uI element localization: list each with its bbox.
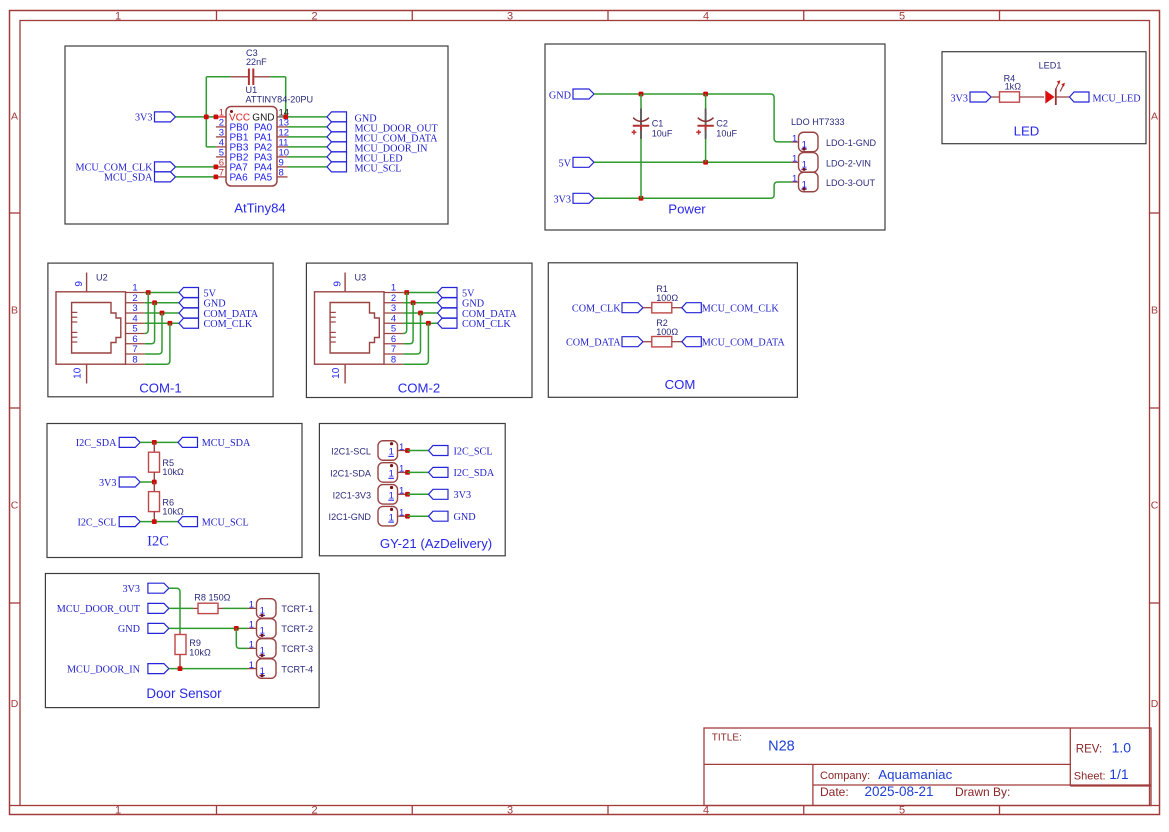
- svg-text:MCU_SDA: MCU_SDA: [104, 173, 153, 184]
- svg-text:TCRT-2: TCRT-2: [281, 624, 313, 634]
- svg-text:COM_DATA: COM_DATA: [566, 338, 621, 349]
- svg-text:1: 1: [792, 133, 797, 144]
- svg-text:3V3: 3V3: [99, 478, 117, 489]
- svg-text:TCRT-1: TCRT-1: [281, 604, 313, 614]
- svg-text:C: C: [11, 500, 19, 512]
- svg-text:ATTINY84-20PU: ATTINY84-20PU: [246, 95, 314, 105]
- svg-text:LDO-1-GND: LDO-1-GND: [826, 138, 876, 148]
- svg-text:2025-08-21: 2025-08-21: [865, 784, 934, 799]
- svg-text:MCU_COM_DATA: MCU_COM_DATA: [702, 338, 786, 349]
- svg-text:COM-1: COM-1: [139, 381, 182, 396]
- svg-text:1: 1: [399, 442, 404, 453]
- svg-text:1: 1: [399, 464, 404, 475]
- svg-text:COM_CLK: COM_CLK: [204, 319, 253, 330]
- svg-text:TCRT-4: TCRT-4: [281, 664, 313, 674]
- svg-text:2: 2: [311, 11, 317, 23]
- svg-text:MCU_COM_CLK: MCU_COM_CLK: [702, 304, 780, 315]
- svg-text:1: 1: [249, 620, 254, 631]
- svg-text:1: 1: [792, 173, 797, 184]
- svg-text:100Ω: 100Ω: [656, 293, 678, 303]
- svg-text:TCRT-3: TCRT-3: [281, 644, 313, 654]
- svg-text:GND: GND: [118, 624, 140, 635]
- svg-text:10kΩ: 10kΩ: [162, 467, 184, 477]
- svg-text:Sheet:: Sheet:: [1074, 770, 1106, 782]
- svg-text:B: B: [1151, 305, 1158, 317]
- svg-text:Aquamaniac: Aquamaniac: [878, 767, 952, 782]
- svg-text:1: 1: [399, 486, 404, 497]
- svg-text:8: 8: [279, 167, 284, 178]
- svg-text:8: 8: [132, 354, 137, 365]
- svg-text:10: 10: [73, 367, 84, 379]
- svg-text:GND: GND: [454, 512, 476, 523]
- svg-text:COM-2: COM-2: [398, 381, 441, 396]
- svg-text:N28: N28: [768, 739, 795, 755]
- svg-text:PA5: PA5: [254, 172, 273, 183]
- svg-text:9: 9: [333, 281, 344, 287]
- svg-text:1: 1: [115, 804, 121, 816]
- svg-text:MCU_DOOR_IN: MCU_DOOR_IN: [67, 664, 141, 675]
- svg-text:GY-21 (AzDelivery): GY-21 (AzDelivery): [380, 536, 492, 551]
- svg-text:C1: C1: [652, 118, 664, 128]
- svg-text:LDO-3-OUT: LDO-3-OUT: [826, 178, 875, 188]
- svg-text:3: 3: [507, 11, 513, 23]
- svg-text:I2C_SDA: I2C_SDA: [454, 468, 495, 479]
- svg-text:I2C1-SCL: I2C1-SCL: [331, 447, 371, 457]
- svg-text:B: B: [11, 305, 18, 317]
- svg-text:MCU_SCL: MCU_SCL: [202, 517, 249, 528]
- svg-text:I2C: I2C: [147, 534, 169, 550]
- svg-text:Door Sensor: Door Sensor: [146, 686, 222, 701]
- svg-text:LDO-2-VIN: LDO-2-VIN: [826, 158, 871, 168]
- svg-text:3V3: 3V3: [553, 195, 571, 206]
- svg-text:MCU_LED: MCU_LED: [1093, 94, 1141, 105]
- svg-text:GND: GND: [549, 90, 571, 101]
- svg-text:100Ω: 100Ω: [656, 327, 678, 337]
- svg-text:10uF: 10uF: [716, 129, 737, 139]
- svg-text:U3: U3: [355, 272, 367, 282]
- svg-text:10kΩ: 10kΩ: [189, 648, 211, 658]
- svg-text:I2C_SCL: I2C_SCL: [454, 446, 493, 457]
- svg-text:8: 8: [391, 354, 396, 365]
- svg-text:MCU_SDA: MCU_SDA: [202, 438, 251, 449]
- svg-text:3V3: 3V3: [454, 490, 472, 501]
- svg-text:9: 9: [74, 281, 85, 287]
- svg-text:4: 4: [703, 11, 709, 23]
- svg-text:1: 1: [249, 660, 254, 671]
- svg-text:22nF: 22nF: [246, 57, 267, 67]
- svg-text:3V3: 3V3: [122, 584, 140, 595]
- svg-text:R9: R9: [189, 638, 201, 648]
- svg-text:1: 1: [249, 640, 254, 651]
- svg-text:U2: U2: [96, 272, 108, 282]
- svg-text:C2: C2: [716, 118, 728, 128]
- svg-text:I2C1-GND: I2C1-GND: [329, 512, 372, 522]
- svg-text:I2C_SCL: I2C_SCL: [77, 517, 116, 528]
- svg-text:REV:: REV:: [1076, 744, 1102, 756]
- svg-text:COM: COM: [665, 377, 696, 392]
- svg-text:3V3: 3V3: [950, 94, 968, 105]
- svg-text:5V: 5V: [559, 159, 572, 170]
- svg-text:1: 1: [792, 154, 797, 165]
- svg-text:TITLE:: TITLE:: [712, 733, 742, 744]
- svg-text:1: 1: [115, 11, 121, 23]
- svg-text:AtTiny84: AtTiny84: [234, 201, 286, 216]
- svg-text:A: A: [1151, 111, 1158, 123]
- svg-text:5: 5: [899, 11, 905, 23]
- svg-text:1: 1: [399, 508, 404, 519]
- svg-text:LED: LED: [1014, 124, 1040, 139]
- svg-text:I2C1-SDA: I2C1-SDA: [330, 468, 372, 478]
- svg-text:3V3: 3V3: [135, 113, 153, 124]
- svg-text:LDO HT7333: LDO HT7333: [791, 117, 845, 127]
- svg-text:LED1: LED1: [1039, 61, 1062, 71]
- svg-text:10uF: 10uF: [652, 129, 673, 139]
- svg-text:MCU_SCL: MCU_SCL: [355, 163, 402, 174]
- svg-text:U1: U1: [246, 85, 258, 95]
- svg-text:Power: Power: [668, 202, 706, 217]
- svg-text:D: D: [11, 698, 19, 710]
- svg-text:7: 7: [219, 167, 224, 178]
- svg-text:10: 10: [331, 367, 342, 379]
- svg-text:1.0: 1.0: [1112, 740, 1132, 756]
- svg-text:Drawn By:: Drawn By:: [955, 785, 1010, 799]
- svg-text:3: 3: [507, 804, 513, 816]
- svg-text:COM_CLK: COM_CLK: [572, 304, 621, 315]
- svg-text:I2C_SDA: I2C_SDA: [76, 438, 117, 449]
- svg-text:C: C: [1151, 500, 1159, 512]
- svg-text:I2C1-3V3: I2C1-3V3: [333, 490, 371, 500]
- svg-text:Company:: Company:: [820, 770, 870, 782]
- svg-text:A: A: [11, 111, 18, 123]
- svg-text:R8 150Ω: R8 150Ω: [194, 593, 230, 603]
- svg-text:D: D: [1151, 698, 1159, 710]
- svg-text:PA6: PA6: [230, 172, 249, 183]
- svg-text:1kΩ: 1kΩ: [1005, 82, 1022, 92]
- svg-text:Date:: Date:: [820, 785, 849, 799]
- svg-text:MCU_DOOR_OUT: MCU_DOOR_OUT: [57, 604, 141, 615]
- svg-text:10kΩ: 10kΩ: [162, 506, 184, 516]
- svg-text:1: 1: [249, 600, 254, 611]
- svg-text:1/1: 1/1: [1109, 766, 1129, 782]
- svg-text:2: 2: [311, 804, 317, 816]
- svg-text:COM_CLK: COM_CLK: [462, 319, 511, 330]
